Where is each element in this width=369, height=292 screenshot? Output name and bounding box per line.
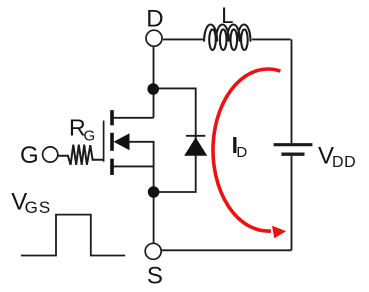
svg-text:G: G bbox=[20, 142, 39, 169]
svg-text:GS: GS bbox=[25, 198, 52, 217]
svg-text:G: G bbox=[84, 127, 96, 144]
svg-text:D: D bbox=[146, 6, 163, 33]
svg-text:DD: DD bbox=[332, 154, 356, 171]
svg-text:S: S bbox=[147, 263, 163, 290]
svg-text:L: L bbox=[221, 3, 233, 28]
svg-text:D: D bbox=[236, 144, 247, 161]
